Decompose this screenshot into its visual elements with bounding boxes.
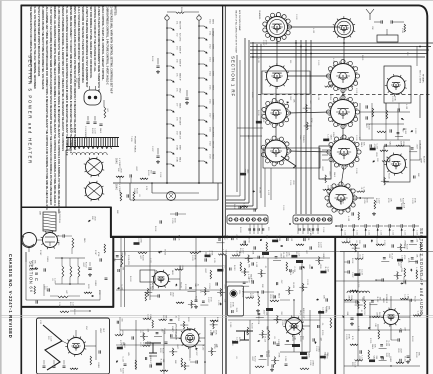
wire audio left border x=226 xyxy=(222,237,224,374)
svg-text:.0047: .0047 xyxy=(204,268,206,274)
svg-text:C-118: C-118 xyxy=(159,172,161,178)
svg-text:V-20: V-20 xyxy=(209,154,211,159)
svg-text:8- ARROWS ON AND THE PHOTO: 8- ARROWS ON AND THE PHOTOTUBE DISCONNEC… xyxy=(41,7,44,90)
svg-text:4BQ7: 4BQ7 xyxy=(179,88,181,94)
component rfmid 17 xyxy=(307,122,309,130)
capacitor column left xyxy=(347,260,349,263)
svg-text:1 MEG: 1 MEG xyxy=(312,360,314,367)
svg-text:470K: 470K xyxy=(278,353,280,358)
component soundif 39 xyxy=(368,327,370,328)
component disc 11 xyxy=(143,333,145,341)
tube V-11 mixer xyxy=(387,155,406,174)
svg-text:1B3 GT: 1B3 GT xyxy=(212,141,214,149)
resistor boxes xyxy=(266,308,273,311)
svg-text:.0047: .0047 xyxy=(181,265,183,271)
lamp heater tap V-10 xyxy=(204,26,207,28)
component strip 2 xyxy=(133,242,139,245)
component audio 16 xyxy=(244,268,246,276)
audio bottom row xyxy=(255,366,264,368)
svg-text:470K: 470K xyxy=(358,356,360,361)
wire tuner arm xyxy=(281,156,296,168)
svg-text:R-201 470K: R-201 470K xyxy=(257,314,259,325)
capacitor cluster top-right xyxy=(380,20,382,23)
svg-text:R-147: R-147 xyxy=(94,250,96,255)
svg-text:C-207: C-207 xyxy=(327,267,329,273)
coil L-200 xyxy=(347,291,369,293)
lamp heater tap V-12 xyxy=(204,51,207,53)
svg-text:R-204: R-204 xyxy=(292,283,294,289)
svg-text:C-119: C-119 xyxy=(282,205,284,211)
component audio 56 xyxy=(314,341,317,344)
lamp heater tap V-20 xyxy=(204,161,207,163)
lamp heater tap V-1 xyxy=(171,28,174,30)
component rfright 19 xyxy=(396,145,404,147)
wire strip extra xyxy=(149,237,151,300)
antenna input xyxy=(366,9,374,20)
svg-text:6AU6: 6AU6 xyxy=(382,298,385,303)
svg-text:R-140: R-140 xyxy=(387,173,389,179)
tube V-24 12AT7 discriminator xyxy=(181,329,199,347)
component strip 17 xyxy=(117,269,119,272)
terminal interlock A xyxy=(165,16,169,20)
svg-text:6AQ5: 6AQ5 xyxy=(212,31,215,37)
heater bottom components xyxy=(116,176,124,178)
svg-text:L-105: L-105 xyxy=(405,104,407,110)
svg-text:C-156: C-156 xyxy=(281,320,283,326)
component strip 12 xyxy=(158,251,161,253)
component soundif 31 xyxy=(343,316,344,318)
wire ABC bottom border y=307 xyxy=(21,306,114,308)
tube V-10 6BZ7 RF amplifier xyxy=(387,76,405,94)
wire right column vertical xyxy=(419,95,421,118)
component rfright 39 xyxy=(396,207,402,210)
svg-text:R-162: R-162 xyxy=(85,262,87,268)
svg-text:C-207: C-207 xyxy=(400,255,402,261)
disc extra caps xyxy=(131,336,133,339)
svg-text:470K: 470K xyxy=(215,330,217,335)
svg-text:C-207: C-207 xyxy=(242,248,244,254)
svg-text:.0047: .0047 xyxy=(176,344,178,350)
component strip 31 xyxy=(205,287,207,295)
svg-text:6CB6: 6CB6 xyxy=(329,95,331,101)
svg-text:C-118: C-118 xyxy=(297,251,299,257)
box osc coil xyxy=(319,146,331,179)
svg-text:C-156: C-156 xyxy=(236,337,238,343)
svg-text:470K: 470K xyxy=(71,128,73,133)
component rfright 15 xyxy=(411,131,413,132)
component strip 8 xyxy=(218,238,221,240)
component disc 4 xyxy=(159,319,167,321)
component soundif 27 xyxy=(371,300,374,302)
svg-text:R-162: R-162 xyxy=(265,310,267,316)
tube V-5 IF 1 xyxy=(335,19,354,38)
svg-text:R-204: R-204 xyxy=(317,242,319,248)
svg-text:R-118 4700: R-118 4700 xyxy=(127,255,129,265)
svg-text:CHANNEL: CHANNEL xyxy=(258,10,261,20)
svg-text:R-204: R-204 xyxy=(278,236,280,242)
resistor R-170 xyxy=(181,358,183,367)
wire fold line y=316 xyxy=(0,314,433,316)
svg-text:C-133: C-133 xyxy=(306,279,308,285)
wire heater return y=183 xyxy=(113,182,222,184)
svg-text:R-204: R-204 xyxy=(404,128,406,134)
svg-text:R-118: R-118 xyxy=(154,226,156,232)
tube V-23 vert output xyxy=(68,338,85,355)
svg-text:6BZ7 RF: 6BZ7 RF xyxy=(179,21,181,30)
svg-text:3- PARTS TOLERANCE AND RESO: 3- PARTS TOLERANCE AND RESONANCE OF TEST… xyxy=(85,7,88,88)
svg-text:1 MEG: 1 MEG xyxy=(242,203,244,210)
svg-text:VERT: VERT xyxy=(99,328,101,334)
disc bottom row xyxy=(124,363,127,365)
svg-text:C-129: C-129 xyxy=(217,300,219,305)
resistor R-160 xyxy=(90,356,92,365)
component audio 9 xyxy=(248,255,250,263)
svg-text:R-162: R-162 xyxy=(201,345,203,351)
svg-text:R-140: R-140 xyxy=(73,309,75,315)
svg-text:C-207: C-207 xyxy=(72,302,74,308)
svg-text:C-156: C-156 xyxy=(363,198,365,204)
component audio 10 xyxy=(257,256,259,259)
wire heater bus 2 xyxy=(198,20,200,183)
component audio 4 xyxy=(272,240,278,243)
svg-text:6- ABC VOLTAGES MEASURED WI: 6- ABC VOLTAGES MEASURED WITH THE AGC TE… xyxy=(57,7,60,215)
component rfmid 42 xyxy=(323,189,331,191)
svg-text:1 MEG: 1 MEG xyxy=(149,314,151,321)
svg-text:C-139: C-139 xyxy=(57,240,59,245)
svg-text:C-207: C-207 xyxy=(118,330,120,336)
lamp heater tap V-16 xyxy=(204,106,207,108)
svg-text:6T8 DET: 6T8 DET xyxy=(179,117,181,126)
component soundif 41 xyxy=(399,329,401,332)
svg-text:R-162: R-162 xyxy=(418,144,420,150)
svg-text:L-105: L-105 xyxy=(415,267,417,273)
component audio 53 xyxy=(273,341,275,344)
component soundif 6 xyxy=(411,240,414,242)
svg-text:12AT7: 12AT7 xyxy=(171,326,174,333)
cluster mid xyxy=(145,292,147,301)
svg-text:L-105: L-105 xyxy=(74,128,76,134)
component rfmid 36 xyxy=(325,175,327,183)
svg-text:V-10: V-10 xyxy=(209,19,211,24)
wire bus y=252 xyxy=(113,251,433,253)
svg-text:6AU6: 6AU6 xyxy=(171,270,174,275)
svg-text:1- VOLTAGES WILL VARY WITH CO: 1- VOLTAGES WILL VARY WITH CONTROL SETTI… xyxy=(109,7,112,95)
wire page left border xyxy=(20,5,22,374)
svg-text:HOLD CONTROL. 5-VERT. LIN. CO: HOLD CONTROL. 5-VERT. LIN. CONTROL. 6-HE… xyxy=(101,7,104,82)
component disc 13 xyxy=(170,334,172,337)
svg-text:L-115: L-115 xyxy=(213,258,215,263)
svg-text:V-15: V-15 xyxy=(209,85,211,90)
svg-text:R-204: R-204 xyxy=(91,128,93,134)
svg-text:C-102: C-102 xyxy=(295,14,297,20)
svg-text:L-101: L-101 xyxy=(257,58,259,64)
svg-text:SEE SERVICE NOTES FOR COMP: SEE SERVICE NOTES FOR COMPLETE ALIGNMENT… xyxy=(29,7,32,83)
svg-text:6AU6: 6AU6 xyxy=(371,344,374,350)
svg-text:R-140: R-140 xyxy=(233,265,235,271)
svg-text:RF AMPL.: RF AMPL. xyxy=(422,74,425,84)
svg-text:C-138: C-138 xyxy=(355,168,357,174)
wire sync links xyxy=(154,275,156,277)
lamp heater tap V-4 xyxy=(171,66,174,68)
svg-text:C-133: C-133 xyxy=(388,341,390,347)
svg-text:C-105: C-105 xyxy=(251,92,253,98)
component disc 19 xyxy=(142,345,150,347)
component audio 5 xyxy=(286,238,288,241)
svg-text:C-133: C-133 xyxy=(174,332,176,338)
svg-text:C-116: C-116 xyxy=(289,180,291,186)
svg-text:ARE SHOWN IN MMF.: ARE SHOWN IN MMF. xyxy=(238,10,241,32)
svg-text:1 MEG: 1 MEG xyxy=(339,198,341,205)
svg-text:C-133: C-133 xyxy=(229,302,231,308)
svg-text:117V: 117V xyxy=(139,342,141,347)
svg-text:5U4G: 5U4G xyxy=(115,158,117,164)
wire divider step x=111 xyxy=(110,207,112,238)
svg-text:C-156: C-156 xyxy=(137,238,139,244)
audio upper components xyxy=(240,244,248,246)
svg-text:6J6 OSC: 6J6 OSC xyxy=(179,33,181,42)
svg-text:6AU6: 6AU6 xyxy=(123,343,126,349)
audio mid components xyxy=(312,338,314,341)
right column components xyxy=(404,268,406,277)
svg-text:SOUND IF: SOUND IF xyxy=(385,294,387,304)
svg-text:1 MEG: 1 MEG xyxy=(322,253,324,260)
svg-text:470K: 470K xyxy=(348,334,350,339)
svg-text:C-131: C-131 xyxy=(355,88,357,94)
wire ac input xyxy=(167,11,176,13)
wire heater mesh xyxy=(129,183,131,200)
wire heater bus 1 xyxy=(166,20,168,183)
component audio 25 xyxy=(275,282,277,285)
svg-text:R-140: R-140 xyxy=(342,198,344,204)
component soundif 53 xyxy=(399,359,401,362)
svg-text:C-156: C-156 xyxy=(171,218,173,224)
svg-text:C-133: C-133 xyxy=(414,128,416,134)
component soundif 5 xyxy=(400,244,402,252)
svg-text:R-108: R-108 xyxy=(257,110,259,116)
svg-text:V-13: V-13 xyxy=(209,57,211,62)
lamp heater tap V-3 xyxy=(171,53,174,55)
svg-text:AUDIO OUT: AUDIO OUT xyxy=(302,308,305,319)
lamp heater tap V-9 xyxy=(171,138,174,140)
component rfright 28 xyxy=(384,177,386,185)
svg-text:6AU6: 6AU6 xyxy=(212,85,215,91)
svg-text:R-118: R-118 xyxy=(216,317,218,323)
svg-text:470K: 470K xyxy=(373,144,375,149)
lamp heater tap V-9A xyxy=(171,152,174,154)
tube V-26 6AU6 sound IF xyxy=(384,310,399,325)
box oscillator shield xyxy=(262,71,310,94)
volume control knob xyxy=(231,291,236,296)
svg-text:6CB6: 6CB6 xyxy=(212,71,214,77)
svg-text:C-133: C-133 xyxy=(391,96,393,102)
svg-text:L-105: L-105 xyxy=(361,356,363,362)
component strip 32 xyxy=(220,288,222,296)
svg-text:R-140: R-140 xyxy=(136,188,138,194)
component strip 21 xyxy=(175,269,183,271)
wire rf inner verticals xyxy=(264,168,266,207)
svg-text:UNLESS OTHERWISE SPECIFIED.: UNLESS OTHERWISE SPECIFIED. ALL RESISTOR… xyxy=(61,7,64,152)
svg-text:V-19: V-19 xyxy=(209,141,211,146)
svg-text:C-118: C-118 xyxy=(386,156,388,162)
resistor R-204 xyxy=(378,330,380,339)
svg-text:C-207: C-207 xyxy=(207,297,209,303)
svg-text:R-162: R-162 xyxy=(129,276,131,282)
component audio 39 xyxy=(277,315,279,323)
svg-text:R-204: R-204 xyxy=(163,250,165,256)
svg-text:L-105: L-105 xyxy=(252,293,254,299)
component audio 63 xyxy=(320,356,326,359)
component strip 39 xyxy=(202,300,205,302)
component rfmid 6 xyxy=(325,86,333,88)
svg-text:C-118: C-118 xyxy=(121,356,123,362)
svg-text:C-156: C-156 xyxy=(363,187,365,193)
svg-text:9- ALL VOLTAGES MEASURED WI: 9- ALL VOLTAGES MEASURED WITH THE AGC TE… xyxy=(33,7,36,90)
wire audio extra verticals xyxy=(267,258,269,366)
svg-text:R-118: R-118 xyxy=(402,203,404,209)
svg-text:TUNING: TUNING xyxy=(302,135,304,143)
component disc 9 xyxy=(115,334,123,336)
svg-text:R-140: R-140 xyxy=(162,315,164,321)
svg-text:470K: 470K xyxy=(211,251,213,256)
svg-text:C-207: C-207 xyxy=(378,198,380,204)
svg-text:C-156: C-156 xyxy=(363,309,365,315)
svg-text:.0047: .0047 xyxy=(280,253,282,259)
svg-text:R-118: R-118 xyxy=(378,312,380,318)
capacitor C-150 xyxy=(204,258,206,261)
svg-text:C-121: C-121 xyxy=(356,230,358,235)
component audio 21 xyxy=(320,271,326,274)
component disc 16 xyxy=(210,332,212,335)
svg-text:C-207: C-207 xyxy=(235,235,237,241)
capacitor C-180 xyxy=(251,280,253,283)
svg-text:470K: 470K xyxy=(394,96,396,101)
component rfright 20 xyxy=(411,147,414,149)
component soundif 25 xyxy=(344,299,352,301)
svg-text:R-142: R-142 xyxy=(39,250,41,255)
tube V-19 pilot xyxy=(167,192,176,201)
svg-text:REMOVED. ALL READINGS TAKEN: REMOVED. ALL READINGS TAKEN WITH CHANNEL… xyxy=(53,7,56,207)
resistor R-181 xyxy=(270,300,279,302)
capacitor C-206 xyxy=(350,317,353,319)
svg-text:T-201: T-201 xyxy=(245,330,247,335)
svg-text:R-140: R-140 xyxy=(415,237,417,243)
component audio 17 xyxy=(261,269,263,277)
capacitor C-101 xyxy=(156,65,159,67)
svg-text:6AU6: 6AU6 xyxy=(99,128,102,134)
component soundif 14 xyxy=(354,273,360,276)
component soundif 1 xyxy=(342,242,350,244)
component strip 38 xyxy=(191,300,193,308)
capacitor C-181 xyxy=(261,290,263,293)
svg-text:1 MEG: 1 MEG xyxy=(388,156,390,163)
svg-text:6AL5: 6AL5 xyxy=(83,238,86,242)
svg-text:C-207: C-207 xyxy=(223,235,225,241)
svg-text:6CB6 IF: 6CB6 IF xyxy=(179,46,181,54)
svg-text:6AU6: 6AU6 xyxy=(278,293,281,299)
svg-text:C-133: C-133 xyxy=(290,235,292,241)
component soundif 33 xyxy=(372,316,380,318)
svg-text:6AX4: 6AX4 xyxy=(212,154,215,160)
svg-text:C-124: C-124 xyxy=(392,230,394,235)
svg-text:470K: 470K xyxy=(414,198,416,203)
tube V-1 RF turret tuner xyxy=(267,17,288,38)
resistor R-151 xyxy=(138,252,147,254)
component audio 6 xyxy=(303,238,305,241)
svg-text:ALL-CHANNEL UHF TUNER. SEE: ALL-CHANNEL UHF TUNER. SEE PHANTOM DIAGR… xyxy=(45,7,48,211)
component disc 12 xyxy=(156,331,159,333)
resistor network abc xyxy=(62,266,64,277)
svg-text:L-105: L-105 xyxy=(222,250,224,256)
component audio 30 xyxy=(246,297,254,299)
component disc 17 xyxy=(117,347,123,350)
svg-text:C-156: C-156 xyxy=(208,283,210,289)
component rfmid 31 xyxy=(240,173,246,176)
svg-text:L-105: L-105 xyxy=(305,353,307,359)
svg-text:470K: 470K xyxy=(307,236,309,241)
svg-text:R-162: R-162 xyxy=(348,238,350,244)
diode arrow abc xyxy=(88,220,90,222)
svg-text:6CB6: 6CB6 xyxy=(212,57,214,63)
fuse F-101 xyxy=(176,12,184,13)
svg-text:V-9A: V-9A xyxy=(176,145,179,150)
lamp heater tap V-14 xyxy=(204,78,207,80)
component soundif 46 xyxy=(380,344,383,346)
component audio 54 xyxy=(286,339,289,341)
lamp heater tap V-8 xyxy=(171,124,174,126)
component rfright 30 xyxy=(413,176,415,179)
tube V-4 converter xyxy=(265,140,287,162)
component soundif 17 xyxy=(397,271,399,279)
svg-text:C-118: C-118 xyxy=(315,346,317,352)
transformer T-101 secondary winding xyxy=(72,153,107,156)
svg-text:R-171: R-171 xyxy=(209,330,211,335)
svg-text:6SN7: 6SN7 xyxy=(179,145,181,151)
svg-text:C-207: C-207 xyxy=(351,272,353,278)
box RF amp 6BZ7 xyxy=(384,66,411,103)
svg-text:1 MEG: 1 MEG xyxy=(97,362,99,369)
svg-text:470K: 470K xyxy=(194,255,196,260)
svg-text:R-118: R-118 xyxy=(390,254,392,260)
svg-text:4- D-C VOLTAGES MEASURED FR: 4- D-C VOLTAGES MEASURED FROM SOCKET TER… xyxy=(77,7,80,90)
svg-text:L-103: L-103 xyxy=(312,28,314,34)
component disc 28 xyxy=(156,363,162,366)
component audio 8 xyxy=(232,255,240,257)
wire tuner links xyxy=(287,26,340,28)
switch second row xyxy=(248,228,250,231)
capacitor C-102 xyxy=(156,155,159,157)
component cluster above divider xyxy=(120,192,122,201)
svg-text:.0047: .0047 xyxy=(262,310,264,316)
svg-text:R-162: R-162 xyxy=(282,253,284,259)
component strip 5 xyxy=(173,237,175,240)
svg-text:L-105: L-105 xyxy=(347,216,349,222)
component soundif 36 xyxy=(413,315,421,317)
transformer T-101 primary winding xyxy=(70,146,111,149)
svg-text:R-120: R-120 xyxy=(184,284,186,289)
component strip 15 xyxy=(205,255,211,258)
svg-text:6AU6: 6AU6 xyxy=(233,204,236,210)
svg-text:C-171: C-171 xyxy=(149,360,151,365)
svg-text:R-140: R-140 xyxy=(159,359,161,365)
svg-text:R-118: R-118 xyxy=(162,348,164,354)
svg-text:470K: 470K xyxy=(400,267,402,272)
lamp heater tap V-7 xyxy=(171,110,174,112)
svg-text:6S4 VERT: 6S4 VERT xyxy=(212,127,214,138)
component soundif 18 xyxy=(410,269,412,272)
component audio 62 xyxy=(301,357,307,360)
svg-text:C-207: C-207 xyxy=(417,311,419,317)
sound bottom row xyxy=(359,350,361,353)
